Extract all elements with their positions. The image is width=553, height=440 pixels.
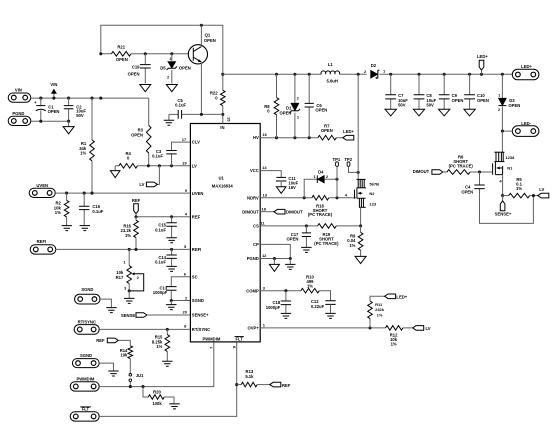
wire LED- row <box>502 130 512 132</box>
resistor R15 <box>166 329 168 361</box>
node C18 tap <box>284 289 287 292</box>
svg-text:(PC TRACE): (PC TRACE) <box>308 212 333 217</box>
svg-text:1%: 1% <box>55 210 61 215</box>
svg-text:100k: 100k <box>152 401 162 406</box>
connector RT/SYNC pad <box>74 325 99 335</box>
wire TP1 to NDRV node <box>336 166 338 197</box>
transistor N1 (n-mosfet) <box>493 152 515 175</box>
svg-text:5.6uH: 5.6uH <box>326 79 337 84</box>
capacitor C12 <box>325 301 335 305</box>
diode D3 (open) <box>501 74 503 131</box>
svg-text:15: 15 <box>227 117 232 122</box>
svg-text:1%: 1% <box>307 283 313 288</box>
net flag LV at R12 <box>413 326 424 331</box>
node R17 tap <box>128 248 131 251</box>
svg-text:CS: CS <box>253 224 259 229</box>
svg-text:REF: REF <box>96 338 105 343</box>
node R13 tap on FLT wire <box>235 383 238 386</box>
resistor R16 <box>135 217 137 250</box>
ground below CP junction (earth) <box>289 259 291 265</box>
svg-text:19: 19 <box>182 161 187 166</box>
wire TP2 to drain <box>349 166 359 172</box>
ground below C17 <box>301 247 311 252</box>
net flag LED+ at R11 <box>385 294 396 299</box>
svg-text:50V: 50V <box>76 113 84 118</box>
ground for SGND lower <box>108 371 118 376</box>
svg-text:COMP: COMP <box>246 288 259 293</box>
svg-text:14: 14 <box>262 165 267 170</box>
svg-text:OPEN: OPEN <box>204 38 216 43</box>
svg-text:N2: N2 <box>369 191 375 196</box>
connector LED+ pad <box>512 69 539 80</box>
svg-text:OVP+: OVP+ <box>248 326 260 331</box>
node R1 tap <box>90 97 93 100</box>
capacitor C10 <box>469 74 471 109</box>
svg-text:JU1: JU1 <box>136 373 144 378</box>
svg-text:LED+: LED+ <box>521 64 532 69</box>
connector LED- pad <box>512 126 539 137</box>
node R3 bottom on LV row <box>147 164 150 167</box>
connector UVEN pad <box>29 188 55 197</box>
svg-text:REF: REF <box>132 198 141 203</box>
node IN / C5 junction <box>221 113 224 116</box>
svg-text:1%: 1% <box>125 233 131 238</box>
resistor R10 <box>301 288 319 293</box>
svg-text:OPEN: OPEN <box>477 98 489 103</box>
wire SGND lower to ground <box>99 363 113 371</box>
svg-text:LED+: LED+ <box>396 295 407 300</box>
transistor N2 (n-mosfet) <box>355 179 380 207</box>
svg-text:OPEN: OPEN <box>461 189 473 194</box>
diode D4 across R18 <box>304 179 337 198</box>
capacitor C13 <box>166 287 176 291</box>
op-amp U1 MAX16834 controller box <box>190 124 260 342</box>
capacitor C17 (open) <box>305 226 307 248</box>
node C17 tap <box>305 224 308 227</box>
net flag LED+ on HV row <box>343 135 354 140</box>
capacitor C9 <box>443 74 445 109</box>
svg-text:IN: IN <box>220 125 224 130</box>
svg-text:VIN: VIN <box>50 82 57 87</box>
svg-text:123: 123 <box>369 201 376 206</box>
node C13 bottom on SGND row <box>170 299 173 302</box>
resistor R3 (open) <box>148 98 150 166</box>
svg-text:REFI: REFI <box>192 247 202 252</box>
capacitor C2 <box>68 98 70 121</box>
jumper JU1 <box>129 374 132 377</box>
svg-text:D4: D4 <box>318 169 324 174</box>
ground below C14 <box>166 266 176 271</box>
net flag LV at R5 <box>538 193 549 198</box>
wire REF row <box>136 216 190 218</box>
wire NDRV row <box>260 197 354 199</box>
power flag VIN arrow <box>53 94 55 98</box>
node Q1 emitter on C5 wire <box>200 113 203 116</box>
svg-text:RT/SYNC: RT/SYNC <box>78 319 96 324</box>
svg-text:SENSE+: SENSE+ <box>192 313 209 318</box>
node C6 top <box>308 73 311 76</box>
ground below C9 <box>439 109 450 116</box>
svg-text:(PC TRACE): (PC TRACE) <box>449 163 474 168</box>
resistor R13 <box>237 384 242 386</box>
transistor Q1 (npn, open) <box>188 33 215 64</box>
connector PWMDIM pad <box>70 382 99 391</box>
wire N2 drain from rail <box>357 74 359 179</box>
node C16 tap <box>83 192 86 195</box>
svg-text:R21: R21 <box>117 45 125 50</box>
node R21 left junction <box>99 52 102 55</box>
svg-text:567B: 567B <box>369 181 379 186</box>
svg-text:OPEN: OPEN <box>128 71 140 76</box>
svg-text:TP2: TP2 <box>344 157 352 162</box>
connector FLT pad <box>70 412 99 421</box>
wire Q1 collector <box>200 25 202 45</box>
resistor R9 <box>360 226 362 257</box>
node R16 bottom <box>134 248 137 251</box>
ground below R17 <box>128 291 130 299</box>
node D1 top <box>293 73 296 76</box>
svg-text:OPEN: OPEN <box>315 107 327 112</box>
capacitor C7 <box>390 74 392 109</box>
svg-text:SC: SC <box>192 274 198 279</box>
wire REF flag to R14 <box>118 340 130 345</box>
ground below PGND (triangle) <box>273 259 275 265</box>
zener diode D1 (open) <box>294 74 296 137</box>
svg-text:18: 18 <box>262 206 267 211</box>
node LED- to N1 drain <box>501 130 504 133</box>
ground below C12 <box>325 313 335 318</box>
node R20 tap <box>141 385 144 388</box>
node C2 tap <box>67 97 70 100</box>
node D5 tap <box>170 52 173 55</box>
svg-text:1%: 1% <box>377 312 383 317</box>
svg-text:17: 17 <box>182 137 187 142</box>
net flag DIMOUT at pin 18 <box>260 211 274 213</box>
net flag LV (left of IC) <box>157 166 159 185</box>
svg-text:LED-: LED- <box>521 121 531 126</box>
resistor R2 <box>66 193 68 226</box>
svg-text:5.1k: 5.1k <box>245 374 254 379</box>
svg-text:D2: D2 <box>371 63 377 68</box>
svg-text:SGND: SGND <box>80 353 92 358</box>
resistor R8 <box>276 74 278 137</box>
svg-text:PWMDIM: PWMDIM <box>76 377 94 382</box>
svg-text:REF: REF <box>192 214 201 219</box>
resistor R12 <box>386 326 403 331</box>
node D4 left tap <box>303 196 306 199</box>
svg-text:SGND: SGND <box>192 298 204 303</box>
svg-text:LV: LV <box>192 163 197 168</box>
ground at R4 left end <box>114 166 116 171</box>
node D3 branch tap <box>501 73 504 76</box>
node R8 bottom on HV row <box>275 136 278 139</box>
ground below C15 <box>166 238 176 243</box>
resistor R6 (short PC trace) <box>447 170 470 175</box>
ground below R15 <box>162 361 172 366</box>
potentiometer R17 <box>116 249 144 291</box>
wire UVEN row <box>55 192 190 194</box>
svg-text:D5: D5 <box>160 65 166 70</box>
ground below C7 <box>385 109 396 116</box>
ground below C16 <box>80 226 90 231</box>
resistor R1 <box>91 98 93 193</box>
ground below C11 <box>276 187 286 194</box>
svg-text:1%: 1% <box>349 243 355 248</box>
svg-text:1%: 1% <box>80 151 86 156</box>
resistor R5 <box>503 195 509 197</box>
svg-text:OPEN: OPEN <box>452 98 464 103</box>
capacitor C19 <box>144 54 146 84</box>
inductor L1 <box>321 71 340 74</box>
capacitor C14 <box>171 249 173 266</box>
resistor R20 <box>143 387 148 397</box>
node D1 bottom on HV row <box>293 136 296 139</box>
ground below D5 <box>166 85 177 92</box>
node C10 tap <box>468 73 471 76</box>
svg-text:1%: 1% <box>391 342 397 347</box>
capacitor C15 <box>171 217 173 238</box>
svg-text:16: 16 <box>262 132 267 137</box>
capacitor C18 <box>285 291 287 314</box>
node C1 bottom <box>39 120 42 123</box>
capacitor C4 (open) <box>480 172 534 223</box>
wire REFI row <box>56 248 191 250</box>
node LED+ flag tap <box>480 73 483 76</box>
svg-text:50V: 50V <box>398 103 406 108</box>
svg-text:0.1uF: 0.1uF <box>155 227 166 232</box>
svg-text:1000pF: 1000pF <box>153 290 168 295</box>
node C3 bottom on LV row <box>170 164 173 167</box>
node LV flag tap <box>158 164 161 167</box>
svg-text:0.22uF: 0.22uF <box>311 304 325 309</box>
connector SGND pad lower <box>72 359 99 368</box>
svg-text:1%: 1% <box>156 344 162 349</box>
svg-text:10k: 10k <box>120 353 128 358</box>
net flag SENSE+ below N1 source <box>502 196 504 201</box>
svg-text:N1: N1 <box>507 165 513 170</box>
capacitor C1 (polarized, open) <box>40 98 42 121</box>
svg-text:DIMOUT: DIMOUT <box>286 209 303 214</box>
node R17 bottom junction <box>128 289 131 292</box>
svg-text:L1: L1 <box>328 62 334 67</box>
resistor R7 (open) <box>318 135 336 140</box>
wire PGND row <box>260 258 290 260</box>
node D4 right junction on TP1 wire <box>335 178 338 181</box>
svg-text:HV: HV <box>253 135 259 140</box>
node C9 tap <box>443 73 446 76</box>
wire VCC row <box>260 171 281 178</box>
node C4 tap on gate wire <box>478 170 481 173</box>
svg-text:PGND: PGND <box>247 256 259 261</box>
wire N2 source to CS node <box>360 207 362 226</box>
resistor R19 (short PC trace) <box>318 224 337 229</box>
wire CP loop <box>260 244 290 258</box>
svg-text:CP: CP <box>253 242 259 247</box>
wire top loop from R21 node to boost rail <box>101 25 223 74</box>
svg-text:FLT: FLT <box>236 336 244 341</box>
node R2 tap <box>65 192 68 195</box>
svg-text:UVEN: UVEN <box>36 183 48 188</box>
svg-text:12: 12 <box>262 253 267 258</box>
resistor R22 <box>222 74 224 123</box>
connector REFI pad <box>30 245 56 254</box>
svg-text:0.1uF: 0.1uF <box>155 260 166 265</box>
node N2 source / R9 junction <box>359 224 362 227</box>
capacitor C5 <box>169 114 223 120</box>
svg-text:OPEN: OPEN <box>508 103 520 108</box>
svg-text:+: + <box>34 100 37 105</box>
ground below C2 <box>68 121 70 126</box>
node R11 tap <box>368 326 371 329</box>
svg-text:16V: 16V <box>288 185 296 190</box>
wire R21 row <box>101 53 189 55</box>
svg-text:LV: LV <box>426 326 431 331</box>
node REF flag / R16 junction <box>134 215 137 218</box>
resistor R21 <box>111 52 131 57</box>
wire JU1 to PWMDIM row <box>129 382 131 387</box>
svg-text:OPEN: OPEN <box>280 110 292 115</box>
connector VIN pad <box>8 93 31 102</box>
capacitor C11 (polarized) <box>276 176 286 178</box>
wire FLT row to IC <box>99 342 237 417</box>
wire boost rail <box>223 73 513 75</box>
ground below R20 <box>169 404 179 409</box>
wire RT/SYNC row <box>99 328 190 330</box>
resistor R14 <box>128 346 133 359</box>
node C8 tap <box>417 73 420 76</box>
capacitor C8 <box>418 74 420 109</box>
node top-loop tap <box>99 97 102 100</box>
node R15 tap <box>166 328 169 331</box>
svg-text:LV: LV <box>539 187 544 192</box>
connector SGND pad upper <box>75 294 100 304</box>
svg-text:CLV: CLV <box>192 140 200 145</box>
svg-text:R20: R20 <box>153 389 161 394</box>
wire PWMDIM row <box>99 342 214 387</box>
svg-text:50V: 50V <box>426 103 434 108</box>
node drain tap on rail <box>357 73 360 76</box>
svg-text:VIN: VIN <box>15 88 22 93</box>
svg-text:RT/SYNC: RT/SYNC <box>192 327 210 332</box>
svg-text:(PC TRACE): (PC TRACE) <box>314 241 339 246</box>
resistor R11 <box>370 296 385 328</box>
wire PGND row <box>31 120 69 122</box>
svg-text:LED+: LED+ <box>477 54 488 59</box>
ground below SGND pin <box>170 301 172 305</box>
node Q1 collector tap on top wire <box>200 24 203 27</box>
svg-text:20: 20 <box>183 310 188 315</box>
svg-text:LED+: LED+ <box>343 129 354 134</box>
wire R6 to gate <box>470 171 493 173</box>
node C2 bottom <box>67 120 70 123</box>
svg-text:1000pF: 1000pF <box>266 305 281 310</box>
capacitor C3 between CLV and LV <box>172 142 191 166</box>
wire DIMOUT flag to R6 <box>443 171 447 173</box>
wire COMP row <box>260 291 330 301</box>
svg-text:OPEN: OPEN <box>179 65 191 70</box>
ground below C18 <box>281 313 291 318</box>
zener diode D5 <box>171 54 173 84</box>
svg-text:OPEN: OPEN <box>321 128 333 133</box>
ground below C8 <box>413 109 424 116</box>
wire N1 source to sense node <box>502 175 504 196</box>
wire VIN rail <box>31 97 149 99</box>
svg-text:R17: R17 <box>116 275 124 280</box>
net flag REF at R13 <box>270 382 281 387</box>
svg-text:13: 13 <box>263 192 268 197</box>
svg-text:OPEN: OPEN <box>131 133 143 138</box>
svg-text:0.1uF: 0.1uF <box>175 102 186 107</box>
wire CS row <box>260 225 360 227</box>
diode D2 (schottky) <box>371 70 378 78</box>
ground below R2 <box>62 226 72 231</box>
node C15 tap <box>170 215 173 218</box>
resistor R4 <box>115 165 190 167</box>
node rail to R22 <box>221 73 224 76</box>
svg-text:0.1uF: 0.1uF <box>152 154 163 159</box>
wire SGND row <box>171 300 190 302</box>
node C19 tap <box>144 52 147 55</box>
svg-text:1238: 1238 <box>505 155 515 160</box>
ground below C19 <box>140 85 151 92</box>
capacitor C6 (open) <box>308 74 310 137</box>
wire N2 gate stub <box>355 197 357 199</box>
ground at C5 <box>164 120 174 125</box>
svg-text:LV: LV <box>139 182 144 187</box>
node TP2 on drain wire <box>357 171 360 174</box>
svg-text:REF: REF <box>282 383 291 388</box>
node N1 source junction <box>501 194 504 197</box>
wire HV row <box>260 137 343 139</box>
svg-text:0.1uF: 0.1uF <box>92 209 103 214</box>
svg-text:VCC: VCC <box>250 168 259 173</box>
svg-text:MAX16834: MAX16834 <box>212 184 234 189</box>
capacitor C16 <box>83 193 85 226</box>
svg-text:U1: U1 <box>219 176 225 181</box>
node R5 to LV flag / C4 return <box>532 194 535 197</box>
svg-text:OPEN: OPEN <box>48 109 60 114</box>
node JU1 bottom on PWMDIM row <box>129 385 132 388</box>
node PGND ground tap <box>273 257 276 260</box>
svg-text:PWMDIM: PWMDIM <box>202 336 220 341</box>
wire OVP+ row <box>260 327 413 329</box>
svg-text:C19: C19 <box>132 65 140 70</box>
wire R14 to JU1 <box>129 359 131 374</box>
svg-text:NDRV: NDRV <box>247 195 259 200</box>
svg-text:REFI: REFI <box>37 239 47 244</box>
connector PGND pad <box>8 116 31 125</box>
svg-text:OPEN: OPEN <box>287 236 299 241</box>
node C7 tap <box>389 73 392 76</box>
wire N1 drain <box>501 131 503 152</box>
ground below R9 <box>355 256 366 263</box>
node C14 tap <box>170 248 173 251</box>
ground for SGND upper <box>106 308 116 313</box>
node VIN arrow tap <box>52 97 55 100</box>
wire Q1 emitter to IN node <box>200 63 202 115</box>
wire SGND upper to ground <box>100 299 111 308</box>
wire SC row <box>171 277 190 287</box>
node CP/PGND junction <box>289 257 292 260</box>
node C6 bottom on HV row <box>308 136 311 139</box>
svg-text:1%: 1% <box>516 186 522 191</box>
node R8 top <box>275 73 278 76</box>
svg-text:SENSE+: SENSE+ <box>495 212 512 217</box>
svg-text:UVEN: UVEN <box>192 191 204 196</box>
svg-text:DIMOUT: DIMOUT <box>242 209 259 214</box>
resistor R18 (short PC trace) <box>312 196 329 201</box>
svg-text:DIMOUT: DIMOUT <box>413 169 430 174</box>
